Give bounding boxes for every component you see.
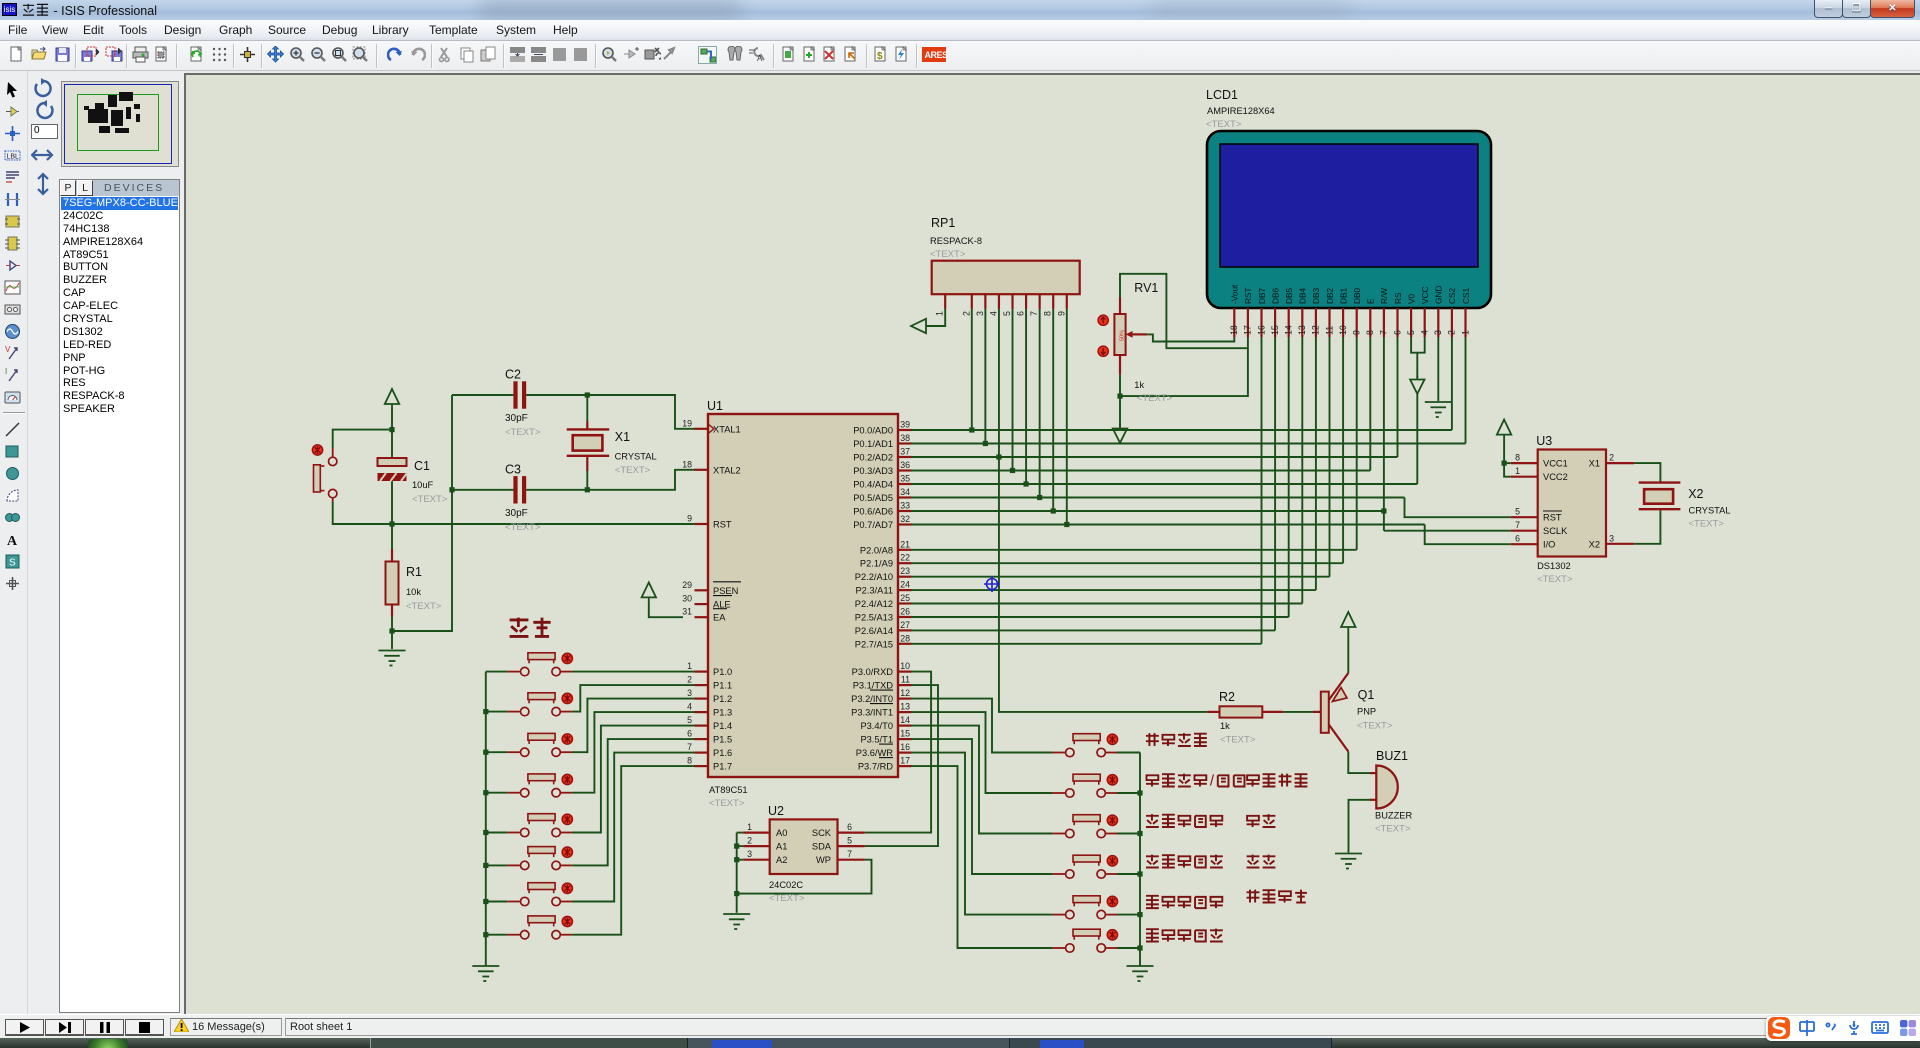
wire RP1 pin5 riser to P0.3 [1012, 309, 1014, 471]
svg-text:6: 6 [687, 729, 692, 739]
svg-text:3: 3 [687, 688, 692, 698]
svg-text:P1.7: P1.7 [713, 762, 732, 772]
svg-text:10: 10 [900, 661, 910, 671]
wire P2.4 bus line [912, 603, 1303, 605]
wire LCD E to P0.3 [1369, 337, 1371, 471]
svg-text:6: 6 [1392, 330, 1402, 335]
svg-text:P3.0/RXD: P3.0/RXD [852, 667, 894, 677]
svg-text:CS2: CS2 [1447, 287, 1457, 304]
node P0.5 junction [1037, 495, 1042, 500]
wire C2 right to X1 top and XTAL1 [526, 395, 695, 429]
svg-text:8: 8 [1365, 330, 1375, 335]
svg-text:35: 35 [900, 474, 910, 484]
svg-text:Q1: Q1 [1358, 688, 1375, 702]
wire P2.3 bus line [912, 589, 1316, 591]
svg-text:P2.6/A14: P2.6/A14 [855, 626, 893, 636]
overview minimap [61, 81, 179, 167]
svg-text:P3.2/INT0: P3.2/INT0 [851, 694, 893, 704]
svg-text:11: 11 [1324, 326, 1334, 335]
wire C3 left segment [452, 489, 513, 491]
node player bus junction 8 [483, 932, 488, 937]
crystal X1 [567, 422, 657, 477]
wire player button 4 to P1.3 [572, 712, 695, 793]
sogou input bar [1766, 1016, 1920, 1041]
svg-text:<TEXT>: <TEXT> [1375, 824, 1411, 835]
label 答题时间减 [1146, 929, 1223, 942]
label 抢答时间减 [1146, 855, 1223, 868]
svg-text:RESPACK-8: RESPACK-8 [930, 236, 982, 246]
node player bus junction 5 [483, 830, 488, 835]
svg-text:27: 27 [900, 620, 910, 630]
svg-text:38: 38 [900, 433, 910, 443]
svg-text:3: 3 [975, 311, 985, 316]
svg-text:30pF: 30pF [505, 508, 528, 519]
svg-text:10uF: 10uF [412, 480, 434, 490]
svg-text:18: 18 [682, 459, 692, 469]
svg-text:C2: C2 [505, 368, 521, 382]
label 抢答时间加 [1146, 814, 1223, 827]
svg-text:SCLK: SCLK [1543, 526, 1568, 536]
node P0.6 junction [1051, 508, 1056, 513]
wire P2.0 bus line [912, 549, 1357, 551]
svg-text:3: 3 [1609, 533, 1614, 543]
button player 4 [507, 774, 572, 797]
resistor R1 10k [386, 550, 442, 617]
label 答题时间加 [1146, 896, 1223, 908]
svg-text:V0: V0 [1406, 293, 1416, 304]
svg-text:1: 1 [1460, 330, 1470, 335]
wire P3.0 to U2 SCK [865, 672, 931, 833]
label 加分 [1247, 814, 1276, 827]
toolbar [0, 41, 1920, 71]
ground below LCD GND pin [1425, 402, 1452, 417]
svg-text:SCK: SCK [812, 828, 832, 838]
svg-text:RS: RS [1393, 292, 1403, 304]
wire P2.7 bus line [912, 643, 1262, 645]
svg-text:X2: X2 [1688, 487, 1703, 501]
wire U2 WP loop [737, 860, 872, 894]
power +5V arrow near C1 [385, 389, 399, 408]
svg-text:P2.5/A13: P2.5/A13 [855, 613, 893, 623]
devices panel [59, 179, 180, 1013]
svg-text:9: 9 [1056, 311, 1066, 316]
wire P0.4 bus line [912, 483, 1418, 485]
svg-text:GND: GND [1434, 286, 1444, 304]
svg-text:34: 34 [900, 487, 910, 497]
capacitor C1 10uF [378, 458, 448, 505]
svg-text:10k: 10k [406, 587, 421, 597]
svg-text:11: 11 [901, 675, 910, 685]
wire LCD RST to RV1 bottom net [1120, 274, 1248, 396]
svg-text:31: 31 [682, 607, 692, 617]
svg-text:E: E [1366, 298, 1376, 304]
svg-text:24C02C: 24C02C [769, 880, 803, 890]
svg-text:50%: 50% [1120, 330, 1126, 341]
node P0.2 junction [996, 454, 1001, 459]
button player 6 [507, 847, 572, 870]
label 暂停比赛 [1247, 774, 1308, 787]
svg-text:R1: R1 [406, 565, 422, 579]
wire P0.5 bus line [912, 497, 1405, 499]
svg-text:P1.1: P1.1 [713, 681, 732, 691]
wire player button 5 to P1.4 [572, 726, 695, 833]
wire RP1 pin1 to power [926, 309, 945, 326]
svg-text:9: 9 [1352, 330, 1362, 335]
svg-text:BUZZER: BUZZER [1375, 811, 1412, 821]
wire R1 junction to ground [391, 631, 393, 649]
svg-text:P0.7/AD7: P0.7/AD7 [853, 520, 893, 530]
wire P0.7 to U3 I/O [1425, 525, 1511, 545]
svg-text:37: 37 [900, 447, 910, 457]
svg-text:WP: WP [816, 855, 831, 865]
wire Q1 emitter to power [1347, 631, 1349, 673]
svg-text:P1.5: P1.5 [713, 735, 732, 745]
node control bus junction [1137, 790, 1142, 795]
power down arrow below RV1 [1113, 425, 1127, 443]
wire P0.2 bus line [912, 456, 1398, 458]
svg-text:SDA: SDA [812, 842, 832, 852]
svg-text:32: 32 [900, 514, 910, 524]
svg-text:A1: A1 [776, 842, 787, 852]
svg-text:VCC: VCC [1420, 286, 1430, 304]
wire C3 right to X1 bottom and XTAL2 [526, 470, 695, 490]
svg-text:17: 17 [1243, 325, 1253, 335]
svg-text:16: 16 [1256, 325, 1266, 335]
wire P0.7 bus line [912, 524, 1425, 526]
svg-text:2: 2 [747, 836, 752, 846]
node player bus junction 3 [483, 750, 488, 755]
wire player button 2 to P1.1 [572, 685, 695, 712]
menu bar [0, 20, 1920, 41]
svg-text:C3: C3 [505, 462, 521, 476]
crystal X2 [1639, 483, 1731, 530]
ground below control button bus [1127, 966, 1154, 981]
wire P2.6 bus line [912, 629, 1276, 631]
svg-text:2: 2 [1447, 330, 1457, 335]
svg-text:<TEXT>: <TEXT> [412, 494, 448, 505]
svg-text:<TEXT>: <TEXT> [1537, 574, 1573, 585]
wire RP1 pin2 riser to P0.0 [971, 309, 973, 430]
svg-text:P2.0/A8: P2.0/A8 [860, 545, 893, 555]
svg-text:13: 13 [900, 702, 910, 712]
svg-text:DB0: DB0 [1352, 287, 1362, 304]
button control 4 [1052, 855, 1117, 878]
wire EA power [649, 601, 683, 617]
svg-text:<TEXT>: <TEXT> [615, 465, 651, 476]
svg-text:P3.7/RD: P3.7/RD [858, 762, 893, 772]
svg-text:7: 7 [1379, 330, 1389, 335]
ground below U2 [723, 914, 750, 929]
wire U3 X1 to crystal X2 [1634, 463, 1660, 481]
wire LCD DB2 to P2.2 [1329, 337, 1331, 577]
button control 3 [1052, 815, 1117, 838]
node P0.7 junction [1064, 522, 1069, 527]
node control bus junction [1137, 945, 1142, 950]
svg-text:P0.1/AD1: P0.1/AD1 [853, 439, 893, 449]
button control 1 [1052, 734, 1117, 757]
svg-text:U2: U2 [768, 804, 784, 818]
wire RV1 bottom stub net [1119, 375, 1121, 429]
button player 1 [507, 653, 572, 676]
node P0.0 junction [969, 427, 974, 432]
wire VCC to C1 top and button S1 top [333, 408, 392, 458]
IC U1 AT89C51 [682, 399, 911, 809]
svg-text:VCC1: VCC1 [1543, 459, 1568, 469]
svg-text:-Vout: -Vout [1230, 284, 1240, 304]
svg-text:DB3: DB3 [1311, 287, 1321, 304]
svg-text:VCC2: VCC2 [1543, 472, 1568, 482]
svg-text:<TEXT>: <TEXT> [1137, 393, 1173, 404]
wire player button 6 to P1.5 [572, 739, 695, 865]
svg-text:A2: A2 [776, 855, 787, 865]
svg-text:<TEXT>: <TEXT> [1357, 721, 1393, 732]
svg-text:P1.3: P1.3 [713, 708, 732, 718]
svg-text:RST: RST [713, 520, 732, 530]
wire P0.0 bus line [912, 429, 1452, 431]
button player 2 [507, 693, 572, 716]
svg-text:<TEXT>: <TEXT> [930, 249, 966, 260]
node player bus junction 6 [483, 863, 488, 868]
svg-text:P2.3/A11: P2.3/A11 [855, 586, 893, 596]
svg-text:5: 5 [1515, 507, 1520, 517]
svg-text:<TEXT>: <TEXT> [769, 893, 805, 904]
wire LCD GND to ground [1437, 337, 1439, 401]
svg-text:AT89C51: AT89C51 [709, 785, 748, 795]
wire LCD CS2 to P0.0 [1451, 337, 1453, 430]
svg-text:5: 5 [847, 836, 852, 846]
svg-text:RP1: RP1 [931, 216, 955, 230]
svg-text:<TEXT>: <TEXT> [505, 522, 541, 533]
title bar [0, 0, 1920, 20]
svg-text:8: 8 [1515, 453, 1520, 463]
cursor crosshair [984, 576, 1000, 592]
svg-text:P2.2/A10: P2.2/A10 [855, 572, 893, 582]
svg-text:4: 4 [687, 702, 692, 712]
svg-text:7: 7 [847, 849, 852, 859]
svg-text:P3.6/WR: P3.6/WR [856, 748, 893, 758]
label 选手 [510, 618, 551, 637]
svg-text:15: 15 [900, 729, 910, 739]
svg-text:P0.5/AD5: P0.5/AD5 [853, 493, 893, 503]
label 比赛结束 [1247, 890, 1307, 903]
svg-text:X1: X1 [615, 430, 630, 444]
svg-text:39: 39 [900, 420, 910, 430]
svg-text:CRYSTAL: CRYSTAL [1689, 505, 1731, 515]
svg-text:DB4: DB4 [1298, 287, 1308, 304]
svg-text:8: 8 [1043, 311, 1053, 316]
svg-text:1k: 1k [1220, 721, 1230, 731]
wire LCD RS to P0.2 [1397, 337, 1399, 457]
svg-text:6: 6 [1016, 311, 1026, 316]
svg-text:U3: U3 [1536, 434, 1552, 448]
button player 8 [507, 916, 572, 939]
node C2/C3 riser junction [449, 487, 454, 492]
wire BUZ1 to ground [1349, 800, 1371, 853]
wire LCD V0 jog to arrow [1411, 337, 1417, 378]
svg-text:LBL: LBL [7, 154, 20, 161]
svg-text:10: 10 [1338, 325, 1348, 335]
svg-text:<TEXT>: <TEXT> [406, 601, 442, 612]
svg-text:P2.7/A15: P2.7/A15 [855, 639, 893, 649]
windows taskbar sliver [0, 1038, 1920, 1048]
svg-text:DS1302: DS1302 [1537, 561, 1571, 571]
wire player button 8 to P1.7 [572, 766, 695, 935]
wire LCD R/W to P0.6 and U3 SCLK [1384, 337, 1511, 531]
svg-text:U1: U1 [707, 399, 723, 413]
node U3 VCC junction [1502, 461, 1507, 466]
IC U3 DS1302 [1511, 434, 1634, 585]
svg-text:A0: A0 [776, 828, 787, 838]
node P0.1 junction [983, 441, 988, 446]
wire P2.2 bus line [912, 576, 1330, 578]
wire LCD DB5 to P2.5 [1288, 337, 1290, 617]
wire P3.3 to control button 2 [912, 712, 1053, 793]
node RV1 bottom junction [1117, 394, 1122, 399]
svg-text:DB1: DB1 [1338, 287, 1348, 304]
svg-text:DB5: DB5 [1284, 287, 1294, 304]
button control 6 [1052, 929, 1117, 952]
svg-text:P0.6/AD6: P0.6/AD6 [853, 507, 893, 517]
svg-text:14: 14 [900, 715, 910, 725]
svg-text:CS1: CS1 [1461, 287, 1471, 304]
wire LCD DB7 to P2.7 [1261, 337, 1263, 644]
button control 2 [1052, 774, 1117, 797]
svg-text:DB6: DB6 [1270, 287, 1280, 304]
wire player button 3 to P1.2 [572, 699, 695, 753]
svg-text:CRYSTAL: CRYSTAL [615, 452, 657, 462]
wire P3.2 to control button 1 [912, 699, 1053, 753]
wire P3.7 to control button 6 [912, 766, 1053, 948]
svg-text:6: 6 [1515, 534, 1520, 544]
svg-text:4: 4 [1420, 330, 1430, 335]
svg-text:DB2: DB2 [1325, 287, 1335, 304]
wire P0.3 bus line [912, 470, 1371, 472]
svg-text:P1.2: P1.2 [713, 694, 732, 704]
wire P2.1 bus line [912, 562, 1344, 564]
label 查看分数/返回 [1146, 773, 1245, 790]
svg-text:PSEN: PSEN [713, 586, 738, 596]
svg-text:RST: RST [1543, 513, 1562, 523]
svg-text:C1: C1 [414, 459, 430, 473]
svg-text:P3.1/TXD: P3.1/TXD [853, 681, 894, 691]
svg-text:$: $ [877, 51, 883, 62]
svg-text:P2.1/A9: P2.1/A9 [860, 559, 893, 569]
wire player button 7 to P1.6 [572, 753, 695, 902]
svg-text:2: 2 [961, 311, 971, 316]
wire RP1 pin6 riser to P0.4 [1025, 309, 1027, 484]
node P0.6 / R-W junction [1381, 508, 1386, 513]
svg-text:1: 1 [1515, 466, 1520, 476]
svg-text:13: 13 [1297, 325, 1307, 335]
buzzer BUZ1 [1370, 749, 1412, 835]
node P0.3 junction [1010, 468, 1015, 473]
svg-text:30pF: 30pF [505, 413, 528, 424]
svg-text:8: 8 [687, 756, 692, 766]
ground below R1 [379, 651, 406, 666]
wire U3 X2 to crystal X2 [1634, 511, 1660, 544]
svg-text:RV1: RV1 [1134, 281, 1158, 295]
svg-text:P3.3/INT1: P3.3/INT1 [851, 708, 893, 718]
wire C1 bottom to junction [391, 481, 393, 524]
capacitor C2 30pF [505, 368, 541, 439]
svg-text:A: A [7, 534, 18, 548]
wire P3.5 to control button 4 [912, 739, 1053, 874]
svg-text:21: 21 [900, 539, 910, 549]
power down arrow below LCD V0 [1410, 376, 1424, 394]
node X1 top junction [585, 392, 590, 397]
wire P3.4 to control button 3 [912, 726, 1053, 834]
svg-text:I: I [5, 367, 7, 376]
svg-text:R2: R2 [1219, 690, 1235, 704]
svg-text:2: 2 [1609, 453, 1614, 463]
node control bus junction [1137, 871, 1142, 876]
svg-text:2: 2 [687, 675, 692, 685]
svg-text:7: 7 [1029, 311, 1039, 316]
svg-text:23: 23 [900, 566, 910, 576]
node player bus junction 2 [483, 709, 488, 714]
node R1-bottom junction [389, 628, 394, 633]
wire LCD CS1 to P0.1 [1465, 337, 1467, 444]
svg-text:X2: X2 [1589, 539, 1600, 549]
svg-text:6: 6 [847, 822, 852, 832]
wire RP1 pin7 riser to P0.5 [1039, 309, 1041, 498]
svg-text:<TEXT>: <TEXT> [1206, 119, 1242, 130]
svg-text:17: 17 [900, 756, 910, 766]
svg-text:25: 25 [900, 593, 910, 603]
wire RP1 pin4 riser to P0.2 and R2 [999, 309, 1207, 712]
power +5V arrow near EA [642, 582, 656, 601]
svg-text:R/W: R/W [1379, 288, 1389, 304]
node X1 bottom junction [585, 487, 590, 492]
wire LCD DB3 to P2.3 [1315, 337, 1317, 590]
IC U2 24C02C [743, 804, 865, 904]
svg-text:15: 15 [1270, 325, 1280, 335]
wire R1 bottom to C2/C3 riser [392, 395, 452, 631]
wire U2 address bus to ground [737, 833, 744, 913]
svg-text:29: 29 [682, 580, 692, 590]
svg-text:RST: RST [1243, 287, 1253, 304]
svg-text:P3.5/T1: P3.5/T1 [860, 735, 893, 745]
svg-text:4: 4 [988, 311, 998, 316]
button player 5 [507, 814, 572, 837]
svg-text:1: 1 [935, 311, 945, 316]
wire P0.5 to U3 RST [1405, 498, 1511, 518]
svg-text:DB7: DB7 [1257, 287, 1267, 304]
wire LCD DB1 to P2.1 [1342, 337, 1344, 563]
svg-text:EA: EA [713, 613, 726, 623]
svg-text:XTAL1: XTAL1 [713, 424, 741, 434]
wire junction to R1 top [391, 524, 393, 550]
power +5V arrow at U3 [1497, 420, 1511, 439]
wire P3.1 to U2 SDA [865, 685, 938, 846]
svg-text:26: 26 [900, 607, 910, 617]
svg-text:I/O: I/O [1543, 540, 1555, 550]
svg-text:ALE: ALE [713, 600, 731, 610]
svg-text:12: 12 [1311, 325, 1321, 335]
svg-text:5: 5 [687, 715, 692, 725]
power +5V arrow at Q1 emitter [1341, 612, 1355, 631]
potentiometer RV1 1k [1098, 281, 1173, 404]
svg-text:P1.6: P1.6 [713, 748, 732, 758]
svg-text:V: V [5, 345, 11, 354]
svg-text:<TEXT>: <TEXT> [1220, 735, 1256, 746]
wire C2 left segment [452, 394, 513, 396]
capacitor C3 30pF [505, 462, 541, 533]
resistor R2 1k [1207, 690, 1283, 746]
wire control button bus to ground [1117, 753, 1140, 967]
label 开始抢答 [1146, 733, 1207, 746]
svg-text:P0.2/AD2: P0.2/AD2 [853, 453, 893, 463]
